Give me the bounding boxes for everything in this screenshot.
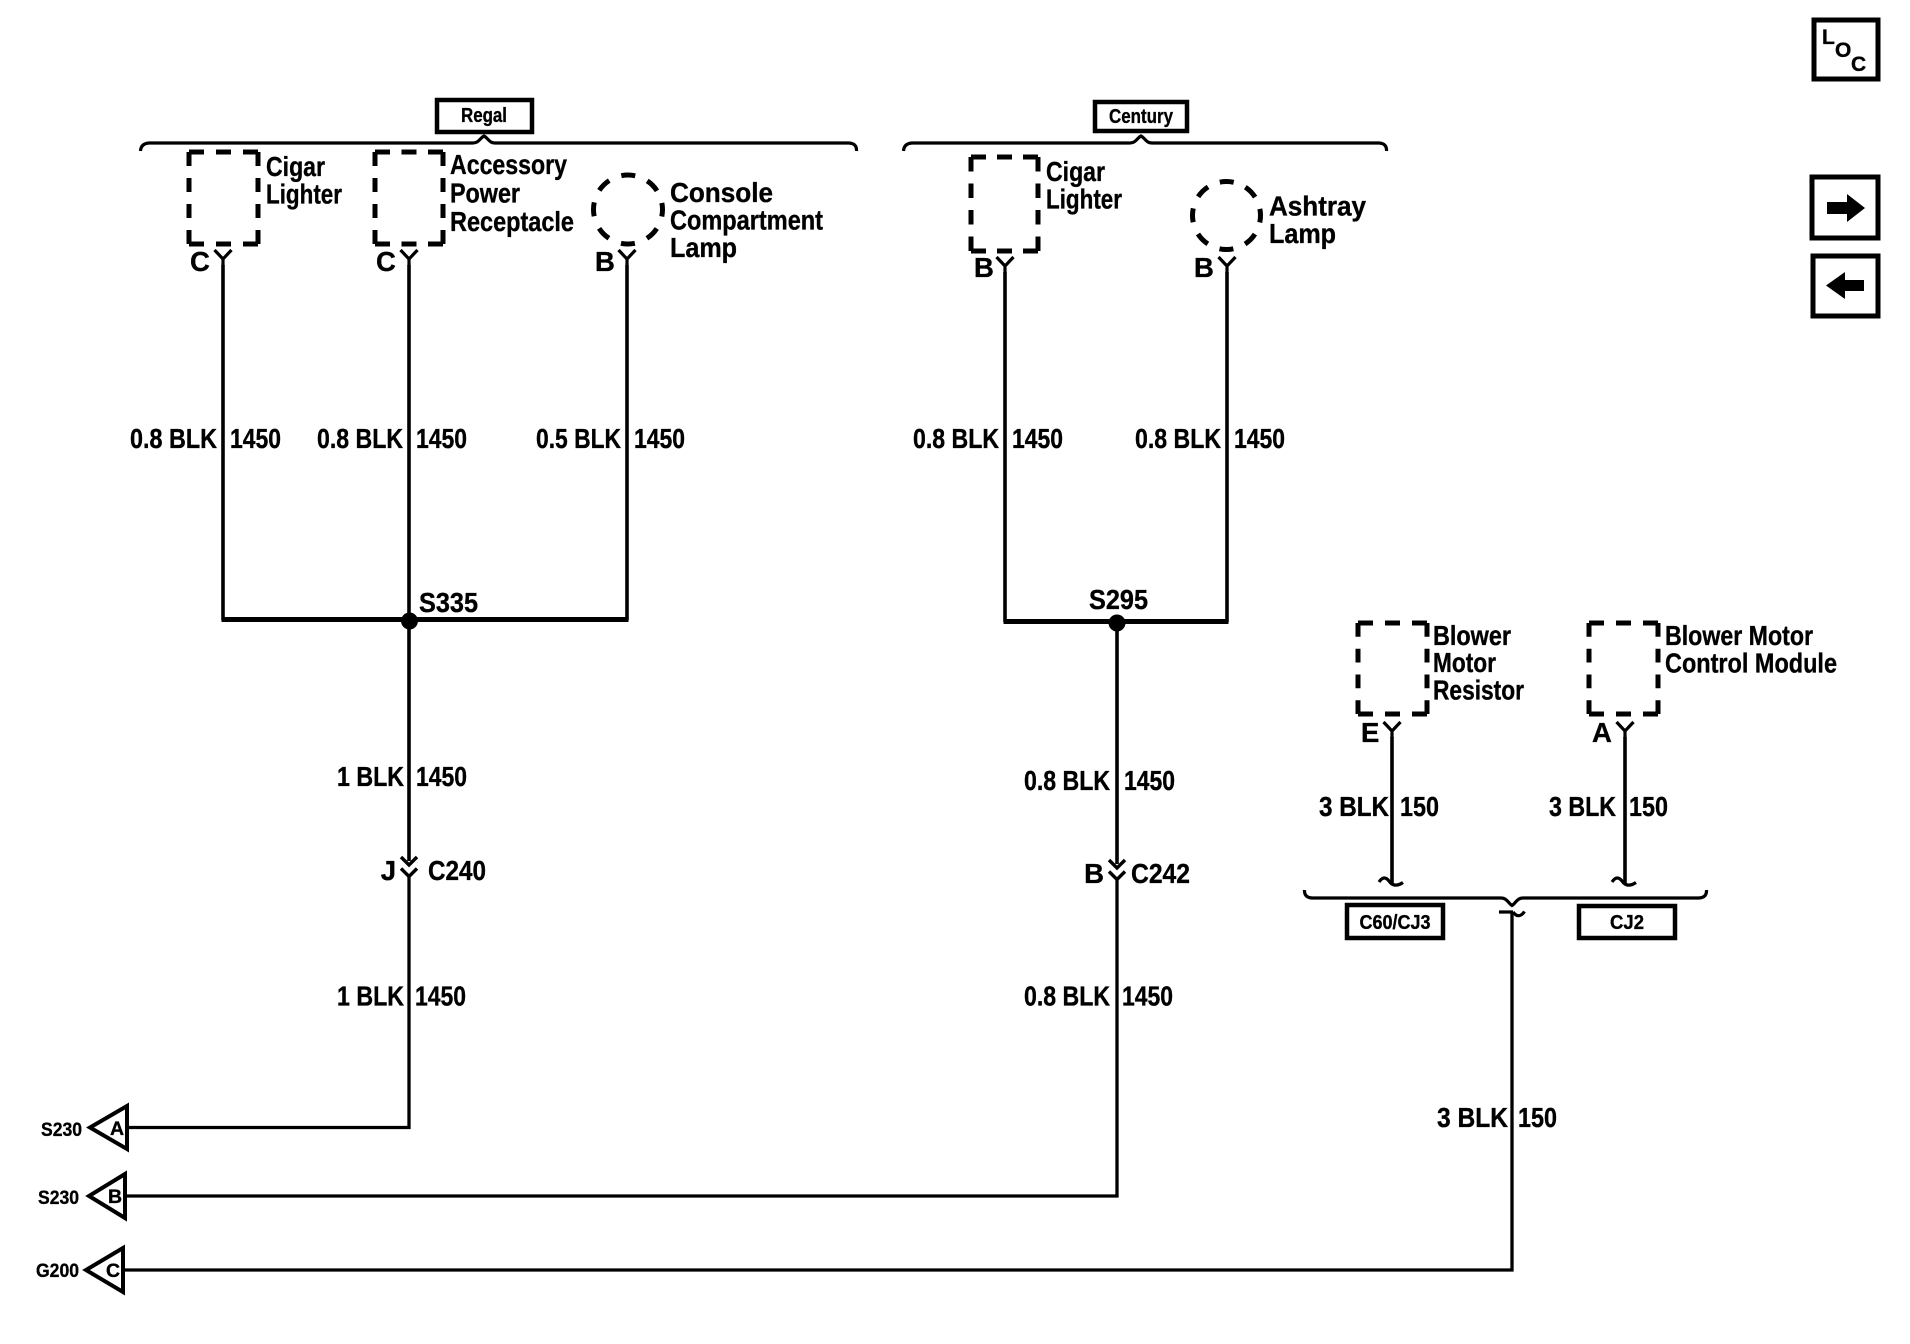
pin C of accessory power receptacle [376,246,418,277]
splice S335 [401,587,478,630]
svg-text:B: B [1194,252,1214,283]
blower motor control module [1589,620,1837,714]
svg-text:0.8 BLK: 0.8 BLK [1135,423,1221,454]
svg-text:C: C [106,1260,120,1282]
svg-text:C60/CJ3: C60/CJ3 [1360,911,1431,934]
ground wire brace cusp to G200-C corner [123,912,1512,1270]
console compartment lamp (Regal) [594,175,824,263]
svg-text:0.8 BLK: 0.8 BLK [130,423,217,454]
in-line connector C242, cavity B [1084,858,1190,889]
svg-text:1 BLK: 1 BLK [337,981,404,1012]
svg-text:150: 150 [1629,791,1668,822]
wire label 0.8 BLK 1450 (above S230 B) [1024,981,1173,1012]
svg-text:Cigar: Cigar [1046,156,1105,187]
wire console lamp to S335 bus [625,265,629,620]
svg-text:0.8 BLK: 0.8 BLK [913,423,999,454]
Century group label box [1095,102,1187,131]
off-page reference G200 cavity C [36,1248,123,1292]
svg-text:1450: 1450 [415,981,466,1012]
svg-text:1450: 1450 [1012,423,1063,454]
pin A of blower motor control module [1592,717,1634,748]
svg-text:C: C [376,246,396,277]
svg-text:E: E [1361,717,1379,748]
svg-text:150: 150 [1518,1102,1557,1133]
Century ground bus wire [1004,619,1229,624]
svg-text:J: J [381,855,396,886]
svg-text:A: A [110,1118,124,1140]
wire label 3 BLK 150 (resistor) [1319,791,1439,822]
pin B of cigar lighter (Century) [974,252,1014,283]
svg-text:Receptacle: Receptacle [450,206,574,237]
connector label box CJ2 [1579,906,1675,938]
wire label 0.8 BLK 1450 (Regal cigar) [130,423,281,454]
blower motor resistor [1358,620,1524,714]
svg-text:1450: 1450 [1124,765,1175,796]
wire Century cigar lighter to S295 bus [1003,272,1007,622]
wire label 3 BLK 150 (ground wire) [1437,1102,1557,1133]
svg-text:Motor: Motor [1433,647,1496,678]
svg-text:3 BLK: 3 BLK [1549,791,1616,822]
svg-text:Ashtray: Ashtray [1269,191,1367,222]
wire label 0.5 BLK 1450 (console lamp) [536,423,685,454]
wire C242 to S230-B corner [125,880,1117,1196]
wire blower motor resistor to C60/CJ3 [1390,737,1394,883]
svg-text:C242: C242 [1131,858,1190,889]
svg-text:B: B [595,246,615,277]
connector label box C60/CJ3 [1347,905,1443,938]
wire C240 to S230-A corner [127,877,409,1128]
forward arrow button [1812,177,1878,238]
svg-text:S335: S335 [419,587,478,618]
wire label 1 BLK 1450 (above S230 A) [337,981,466,1012]
back arrow button [1813,256,1878,316]
svg-text:Lamp: Lamp [670,232,737,263]
svg-text:1450: 1450 [416,423,467,454]
svg-text:B: B [108,1186,122,1208]
pin B of ashtray lamp [1194,252,1236,283]
wire cigar lighter (Regal) to S335 bus [221,265,225,620]
LOC legend box [1814,20,1878,79]
svg-text:0.8 BLK: 0.8 BLK [317,423,403,454]
svg-text:150: 150 [1400,791,1439,822]
pin E of blower motor resistor [1361,717,1401,748]
svg-text:CJ2: CJ2 [1610,911,1644,934]
off-page reference S230 cavity B [38,1174,125,1218]
frayed wire end at C60/CJ3 [1379,878,1403,885]
svg-text:1450: 1450 [230,423,281,454]
wire label 0.8 BLK 1450 (accessory) [317,423,467,454]
svg-text:S230: S230 [38,1187,79,1209]
svg-text:0.5 BLK: 0.5 BLK [536,423,621,454]
wire label 0.8 BLK 1450 (Century cigar) [913,423,1063,454]
wire ashtray lamp to S295 bus [1225,272,1229,622]
svg-text:Cigar: Cigar [266,151,325,182]
svg-text:Century: Century [1109,105,1173,128]
svg-text:G200: G200 [36,1260,79,1282]
splice S295 [1089,584,1148,632]
Regal brace [141,136,857,151]
wire S295 to C242 [1115,623,1119,864]
svg-text:1450: 1450 [416,761,467,792]
svg-text:Control Module: Control Module [1665,648,1837,679]
svg-text:Compartment: Compartment [670,205,823,236]
svg-text:1450: 1450 [1122,981,1173,1012]
wire tap at brace cusp [1499,912,1525,916]
svg-text:1450: 1450 [1234,423,1285,454]
svg-text:A: A [1592,717,1612,748]
Century brace [904,136,1387,151]
svg-text:B: B [974,252,994,283]
svg-text:O: O [1835,39,1851,62]
svg-text:C: C [1851,53,1866,76]
in-line connector C240, cavity J [381,855,486,886]
pin B of console compartment lamp [595,246,636,277]
svg-text:1450: 1450 [634,423,685,454]
svg-text:3 BLK: 3 BLK [1319,791,1389,822]
svg-text:Lighter: Lighter [1046,184,1122,215]
svg-text:Power: Power [450,178,520,209]
svg-text:S230: S230 [41,1119,82,1141]
svg-text:Lighter: Lighter [266,179,342,210]
cigar lighter (Century) [971,156,1122,251]
ashtray lamp (Century) [1193,182,1367,250]
svg-text:0.8 BLK: 0.8 BLK [1024,981,1110,1012]
svg-text:C240: C240 [428,855,486,886]
Regal ground bus wire [222,617,629,622]
svg-text:S295: S295 [1089,584,1148,615]
svg-text:B: B [1084,858,1104,889]
wire accessory receptacle to S335 [407,265,411,861]
svg-text:Accessory: Accessory [450,149,568,180]
ground distribution brace (inverted) [1304,890,1706,906]
svg-text:Blower Motor: Blower Motor [1665,620,1813,651]
svg-text:Lamp: Lamp [1269,218,1336,249]
svg-text:Console: Console [670,177,773,208]
cigar lighter (Regal) [189,151,342,244]
wire label 1 BLK 1450 (below S335) [337,761,467,792]
frayed wire end at CJ2 [1612,878,1636,885]
svg-text:C: C [190,246,210,277]
svg-text:0.8 BLK: 0.8 BLK [1024,765,1110,796]
wire label 0.8 BLK 1450 (ashtray) [1135,423,1285,454]
svg-text:Resistor: Resistor [1433,675,1524,706]
svg-text:L: L [1822,26,1835,49]
svg-text:1 BLK: 1 BLK [337,761,404,792]
wire label 0.8 BLK 1450 (below S295) [1024,765,1175,796]
off-page reference S230 cavity A [41,1106,127,1149]
svg-text:3 BLK: 3 BLK [1437,1102,1508,1133]
wire label 3 BLK 150 (control module) [1549,791,1668,822]
svg-text:Regal: Regal [461,104,507,127]
pin C of cigar lighter (Regal) [190,246,232,277]
accessory power receptacle (Regal) [375,149,574,244]
wire blower motor control module to CJ2 [1623,737,1627,883]
Regal group label box [437,100,532,132]
